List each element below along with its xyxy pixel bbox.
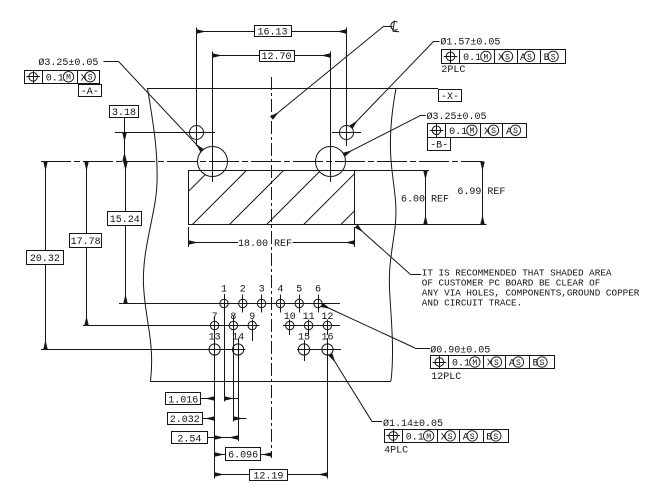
svg-text:M: M xyxy=(66,74,71,83)
svg-text:-X-: -X- xyxy=(441,92,459,103)
svg-text:6.99 REF: 6.99 REF xyxy=(457,187,505,198)
svg-text:3: 3 xyxy=(259,285,265,296)
svg-text:Ø3.25±0.05: Ø3.25±0.05 xyxy=(38,57,98,69)
svg-text:6.00 REF: 6.00 REF xyxy=(401,195,449,206)
svg-text:S: S xyxy=(540,359,545,368)
svg-text:13: 13 xyxy=(209,333,221,344)
svg-text:17.78: 17.78 xyxy=(71,237,101,248)
svg-text:5: 5 xyxy=(296,285,302,296)
svg-text:S: S xyxy=(516,359,521,368)
svg-text:18.00 REF: 18.00 REF xyxy=(238,239,292,250)
svg-text:Ø3.25±0.05: Ø3.25±0.05 xyxy=(427,111,487,123)
svg-text:12PLC: 12PLC xyxy=(431,372,461,383)
svg-text:8: 8 xyxy=(230,312,236,323)
svg-text:12.19: 12.19 xyxy=(253,471,283,482)
svg-text:S: S xyxy=(527,53,532,62)
svg-text:10: 10 xyxy=(284,312,296,323)
svg-text:6: 6 xyxy=(315,285,321,296)
svg-text:0.1: 0.1 xyxy=(406,432,424,443)
svg-text:AND CIRCUIT TRACE.: AND CIRCUIT TRACE. xyxy=(422,297,522,308)
svg-text:M: M xyxy=(426,433,431,442)
svg-text:S: S xyxy=(505,53,510,62)
svg-text:0.1: 0.1 xyxy=(449,127,467,138)
svg-text:15: 15 xyxy=(298,333,310,344)
svg-text:12.70: 12.70 xyxy=(261,52,291,63)
svg-text:20.32: 20.32 xyxy=(30,254,60,265)
svg-text:S: S xyxy=(88,74,93,83)
svg-text:2.032: 2.032 xyxy=(170,415,200,426)
svg-text:12: 12 xyxy=(321,312,333,323)
svg-text:M: M xyxy=(472,359,477,368)
svg-text:15.24: 15.24 xyxy=(110,215,140,226)
svg-text:16.13: 16.13 xyxy=(257,28,287,39)
svg-text:16: 16 xyxy=(321,333,333,344)
svg-text:2PLC: 2PLC xyxy=(441,65,465,76)
svg-text:S: S xyxy=(491,127,496,136)
svg-text:2.54: 2.54 xyxy=(177,434,201,445)
svg-text:0.1: 0.1 xyxy=(463,53,481,64)
svg-text:4PLC: 4PLC xyxy=(384,445,408,456)
svg-text:11: 11 xyxy=(303,312,315,323)
svg-text:6.096: 6.096 xyxy=(228,450,258,461)
svg-text:M: M xyxy=(469,127,474,136)
svg-text:Ø1.57±0.05: Ø1.57±0.05 xyxy=(440,37,500,49)
svg-text:2: 2 xyxy=(240,285,246,296)
svg-text:Ø1.14±0.05: Ø1.14±0.05 xyxy=(383,418,443,430)
svg-text:S: S xyxy=(513,127,518,136)
svg-text:M: M xyxy=(483,53,488,62)
svg-text:7: 7 xyxy=(212,312,218,323)
svg-text:0.1: 0.1 xyxy=(46,73,64,84)
svg-text:S: S xyxy=(494,359,499,368)
svg-text:4: 4 xyxy=(277,285,283,296)
svg-text:14: 14 xyxy=(232,333,244,344)
svg-text:9: 9 xyxy=(249,312,255,323)
svg-text:S: S xyxy=(493,433,498,442)
svg-text:S: S xyxy=(448,433,453,442)
svg-text:-B-: -B- xyxy=(430,141,448,152)
svg-text:0.1: 0.1 xyxy=(452,359,470,370)
svg-text:S: S xyxy=(470,433,475,442)
svg-text:1.016: 1.016 xyxy=(168,395,198,406)
svg-text:Ø0.90±0.05: Ø0.90±0.05 xyxy=(430,344,490,356)
svg-text:-A-: -A- xyxy=(81,87,99,98)
svg-text:1: 1 xyxy=(221,285,227,296)
svg-text:S: S xyxy=(551,53,556,62)
